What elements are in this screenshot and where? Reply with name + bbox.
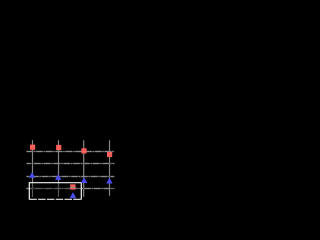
- horizontal dashed gridline y4: [26, 188, 114, 190]
- blue triangle marker series point 1: [29, 172, 35, 178]
- vertical gridline x-tick 4: [109, 140, 111, 196]
- blue triangle marker series point 3: [81, 177, 87, 183]
- legend red handle error line: [70, 187, 76, 189]
- vertical gridline x-tick 2: [58, 140, 60, 196]
- horizontal dashed gridline y3: [26, 176, 114, 178]
- red square marker series point 1: [30, 145, 35, 150]
- red square marker series point 2: [56, 145, 61, 150]
- legend translucent background veil: [30, 183, 81, 198]
- vertical gridline x-tick 3: [83, 140, 85, 197]
- red square marker series point 4: [107, 152, 112, 157]
- legend blue triangle handle: [70, 192, 76, 198]
- legend frame bottom edge (dimmer, dashed): [29, 198, 81, 200]
- horizontal dashed gridline y2: [26, 163, 114, 165]
- red square marker series point 3: [81, 148, 86, 153]
- legend red square handle: [70, 184, 75, 189]
- vertical gridline x-tick 1: [32, 140, 34, 197]
- blue triangle marker series point 4: [106, 178, 112, 184]
- legend frame box (left, top, right edges): [29, 183, 81, 200]
- blue triangle marker series point 2: [55, 174, 61, 180]
- horizontal dashed gridline y1: [26, 151, 114, 153]
